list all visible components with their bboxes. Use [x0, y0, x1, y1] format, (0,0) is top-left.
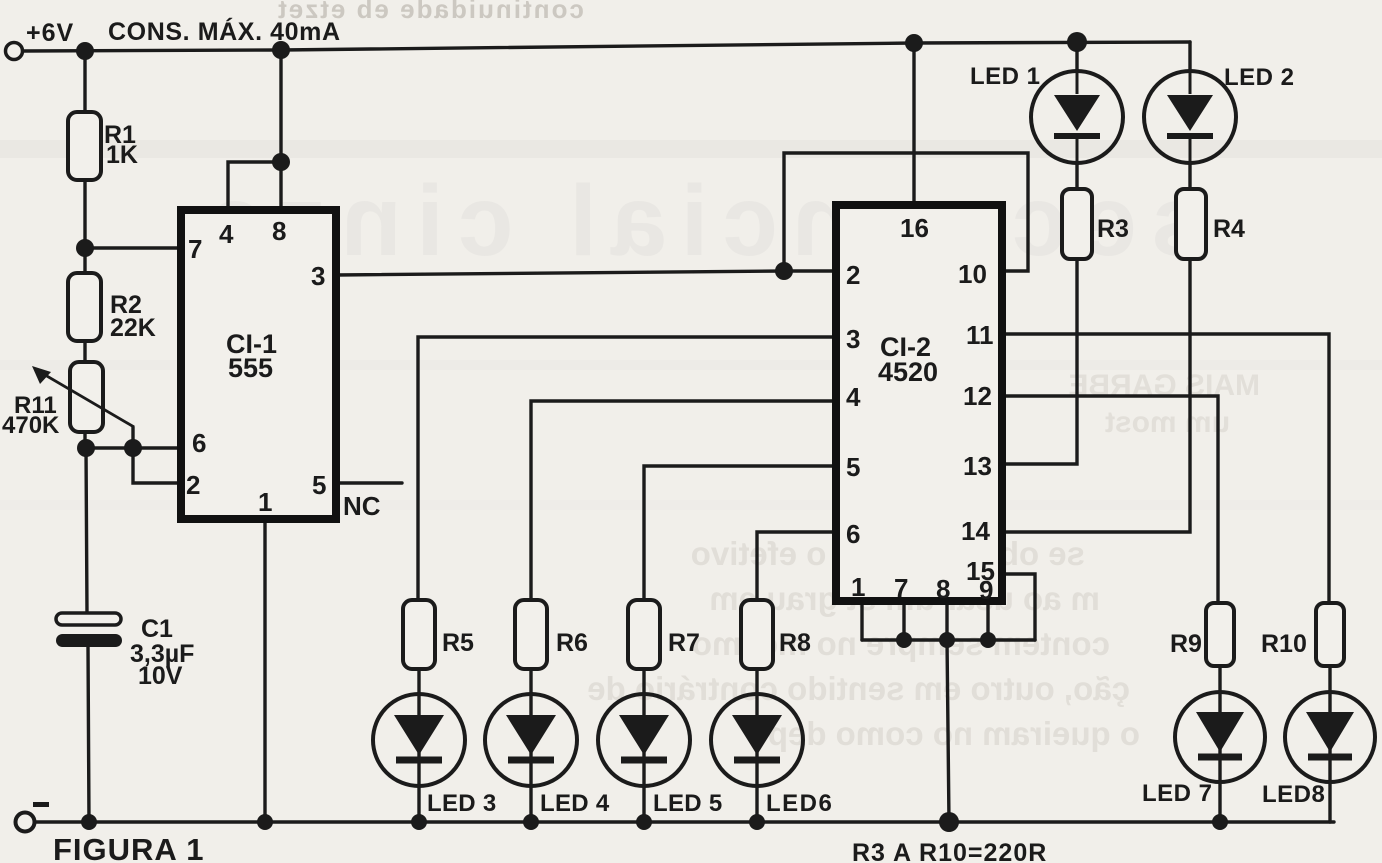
svg-text:10: 10 [958, 259, 987, 289]
wire R2 to R11 [83, 341, 86, 362]
svg-text:22K: 22K [110, 314, 156, 342]
svg-text:1K: 1K [106, 141, 138, 169]
svg-text:LED 7: LED 7 [1142, 780, 1213, 807]
terminal minus [16, 813, 35, 832]
IC U2 CI-2 4520 body [836, 205, 1002, 601]
svg-text:4: 4 [219, 219, 234, 249]
wire R7 to LED5 [642, 669, 645, 822]
wire +6V top supply rail [22, 42, 1190, 51]
LED LED5 [598, 694, 690, 786]
svg-text:16: 16 [900, 213, 929, 243]
svg-text:9: 9 [979, 575, 993, 605]
wire pin 5 CI-2 to R7 [644, 466, 836, 600]
node ground/LED6 [749, 814, 765, 830]
LED LED7 [1175, 692, 1265, 782]
node ground/LED3 [411, 814, 427, 830]
op-amp/IC U1 CI-1 555 body [181, 210, 336, 519]
resistor R8 [741, 600, 773, 669]
wire R8 to LED6 [755, 669, 758, 822]
node pin4/pin8 loop [272, 153, 290, 171]
wire pin 11 CI-2 to R10 [1002, 334, 1329, 603]
resistor R5 [403, 600, 435, 669]
node bus pin7 [896, 632, 912, 648]
node bus pin8 [939, 632, 955, 648]
LED LED6 [711, 694, 803, 786]
potentiometer R11 [70, 362, 103, 432]
node rail/pin8 [272, 41, 290, 59]
svg-text:R4: R4 [1213, 215, 1245, 243]
svg-text:6: 6 [846, 519, 860, 549]
wire R1 to R2 [83, 180, 86, 273]
svg-text:LED 3: LED 3 [427, 790, 497, 817]
wire bus to ground rail [947, 640, 949, 822]
svg-text:470K: 470K [2, 412, 60, 439]
node ground/C1 [81, 814, 97, 830]
wire pin 4 CI-2 to R6 [531, 401, 836, 600]
resistor R7 [628, 600, 660, 669]
wire R11 to node pin6 [83, 432, 86, 448]
svg-text:LED8: LED8 [1262, 781, 1325, 808]
svg-text:4: 4 [846, 382, 861, 412]
bleed-through headline (mirrored show-through) [193, 165, 1206, 277]
svg-text:12: 12 [963, 381, 992, 411]
wire pin 5 NC stub [336, 481, 402, 484]
svg-text:10V: 10V [138, 662, 183, 690]
wire bus under CI-2 [862, 638, 1035, 641]
wire R10 to LED8 [1328, 666, 1331, 822]
wire R9 to LED7 [1218, 666, 1221, 822]
svg-text:R6: R6 [556, 629, 588, 657]
svg-text:7: 7 [894, 573, 908, 603]
svg-text:11: 11 [966, 320, 994, 350]
wire pin 1 of CI-1 to ground rail [263, 519, 266, 822]
resistor R10 [1316, 603, 1344, 666]
wire pin 2 of CI-1 [133, 448, 181, 483]
wire LED1 to R3 [1075, 162, 1078, 189]
LED LED8 [1285, 692, 1375, 782]
svg-text:R3: R3 [1097, 215, 1129, 243]
wire pin 8 of CI-1 from rail [279, 50, 282, 210]
svg-text:7: 7 [188, 234, 202, 264]
LED LED4 [485, 694, 577, 786]
node pin3/pin10 loop [775, 262, 793, 280]
node bus pin9 [980, 632, 996, 648]
node R1/R2 pin7 [76, 239, 94, 257]
svg-text:2: 2 [186, 470, 200, 500]
node wiper/pin2 [124, 439, 142, 457]
wire rail corner to LED2 [1188, 42, 1191, 72]
svg-text:1: 1 [258, 487, 272, 517]
wire wiper R11 to node [131, 427, 134, 448]
wire pin 4 loop of CI-1 [228, 162, 281, 210]
node R11/pin6 [77, 439, 95, 457]
terminal +6V [6, 43, 23, 60]
bleed-through right paragraphs [1068, 369, 1260, 439]
svg-text:R9: R9 [1170, 630, 1202, 658]
svg-text:+6V: +6V [26, 19, 74, 47]
wire R6 to LED4 [529, 669, 532, 822]
wire pin 3 CI-1 to pin 2 CI-2 [336, 271, 836, 275]
svg-text:5: 5 [312, 470, 326, 500]
svg-text:LED 5: LED 5 [653, 790, 723, 817]
wire rail to LED1 [1075, 42, 1078, 72]
wire R5 to LED3 [417, 669, 420, 822]
svg-text:R7: R7 [668, 629, 700, 657]
LED LED2 [1144, 71, 1236, 163]
svg-text:R8: R8 [779, 629, 811, 657]
wire left chain: rail to R1 [83, 50, 86, 112]
svg-text:6: 6 [192, 428, 206, 458]
wire pin 15 CI-2 to bus [1002, 574, 1035, 640]
node rail/pin16 [905, 34, 923, 52]
wire pin 6 of CI-1 [85, 446, 181, 449]
svg-text:1: 1 [851, 572, 865, 602]
svg-text:8: 8 [936, 574, 950, 604]
svg-text:LED 1: LED 1 [970, 63, 1041, 90]
resistor R4 [1176, 189, 1206, 259]
wire pin 3 CI-2 to R5 [418, 337, 836, 600]
wire node to C1 [86, 448, 87, 613]
minus sign [33, 802, 49, 807]
svg-text:secuencial cinza: secuencial cinza [193, 165, 1206, 277]
svg-text:14: 14 [961, 516, 990, 546]
svg-text:LED 2: LED 2 [1224, 64, 1295, 91]
LED LED1 [1031, 71, 1123, 163]
svg-text:um most: um most [1105, 406, 1230, 439]
wire bottom ground rail [33, 820, 1334, 823]
node ground/LED5 [636, 814, 652, 830]
svg-text:o queiram no como depo: o queiram no como depo [748, 715, 1140, 752]
wire pin 6 CI-2 to R8 [757, 532, 836, 600]
node ground/LED4 [523, 814, 539, 830]
wire R4 to pin 14 CI-2 [1002, 259, 1190, 532]
svg-text:8: 8 [272, 216, 286, 246]
wire LED2 to R4 [1188, 162, 1191, 189]
svg-text:LED 4: LED 4 [540, 790, 610, 817]
wire pin 16 CI-2 to rail [912, 43, 915, 205]
node ground/pin8 bus [939, 812, 959, 832]
node ground/pin1 CI-1 [257, 814, 273, 830]
svg-text:CONS. MÁX. 40mA: CONS. MÁX. 40mA [108, 17, 341, 46]
svg-text:C1: C1 [141, 615, 173, 643]
resistor R6 [515, 600, 547, 669]
svg-text:2: 2 [846, 260, 860, 290]
wire pins 1,7,8,9 CI-2 drops [860, 601, 863, 640]
svg-text:NC: NC [343, 491, 381, 521]
wire loop node pin2 to pin 10 CI-2 [784, 153, 1028, 271]
wire C1 to bottom rail [88, 647, 89, 822]
svg-text:3: 3 [846, 324, 860, 354]
resistor R9 [1206, 603, 1234, 666]
wire R3 to pin 13 CI-2 [1002, 259, 1077, 464]
svg-text:FIGURA 1: FIGURA 1 [53, 832, 205, 863]
svg-text:5: 5 [846, 452, 860, 482]
node rail/R1 [76, 42, 94, 60]
svg-text:LED6: LED6 [766, 790, 833, 817]
resistor R2 [68, 273, 101, 341]
node rail/LED1 [1067, 32, 1087, 52]
svg-text:555: 555 [228, 353, 273, 383]
svg-text:R10: R10 [1261, 630, 1307, 658]
svg-text:4520: 4520 [878, 357, 938, 387]
svg-text:3: 3 [311, 261, 325, 291]
wire pin 7 of CI-1 [85, 246, 181, 249]
svg-text:13: 13 [963, 451, 992, 481]
node ground/LED7 [1212, 814, 1228, 830]
svg-text:R3 A R10=220R: R3 A R10=220R [852, 839, 1047, 863]
resistor R3 [1062, 189, 1092, 259]
svg-text:R5: R5 [442, 629, 474, 657]
wire pin 12 CI-2 to R9 [1002, 396, 1218, 603]
capacitor C1 [56, 613, 122, 647]
LED LED3 [373, 694, 465, 786]
resistor R1 [68, 112, 101, 180]
